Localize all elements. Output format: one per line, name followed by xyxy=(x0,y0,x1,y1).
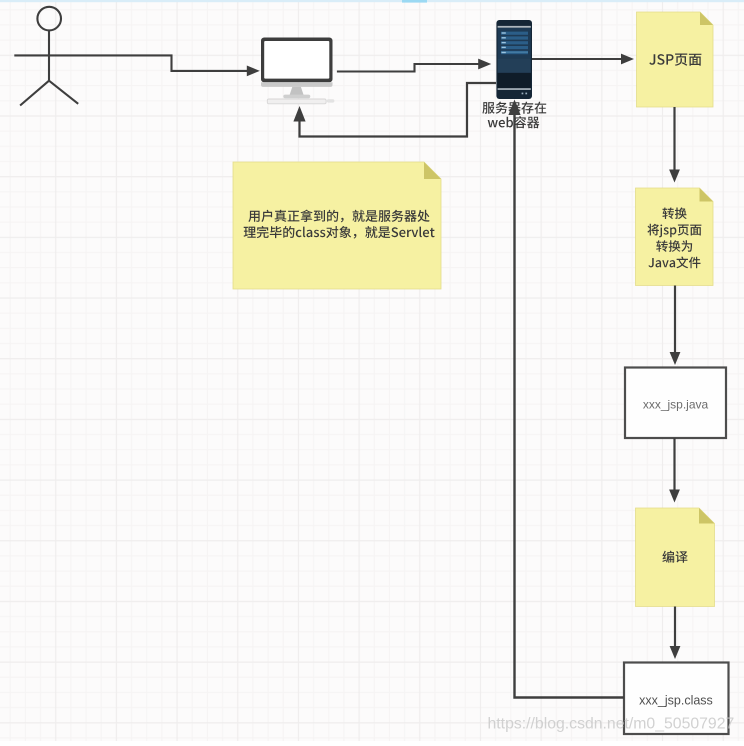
arrow JSP note to convert note xyxy=(673,107,675,171)
actor (user stick figure) xyxy=(14,7,83,106)
note: what user really gets is the processed class object, i.e. Servlet xyxy=(233,162,441,289)
label: web container (line 2) xyxy=(488,116,540,128)
box xxx_jsp.class xyxy=(624,663,729,735)
note: convert jsp page to Java file xyxy=(636,188,714,286)
server tower (web container) xyxy=(496,20,532,99)
arrow compile note to xxx_jsp.class xyxy=(674,607,676,648)
note: compile xyxy=(636,508,715,607)
wire actor to monitor (request) xyxy=(84,55,248,71)
wire xxx_jsp.class back up to server xyxy=(515,114,625,698)
arrow convert note to xxx_jsp.java xyxy=(674,286,676,354)
box xxx_jsp.java xyxy=(625,368,726,439)
monitor (user computer) xyxy=(261,38,334,104)
top video scrub bar xyxy=(0,0,744,2)
arrow xxx_jsp.java to compile note xyxy=(673,438,675,491)
note: JSP page xyxy=(637,12,714,107)
svg-text:xxx_jsp.java: xxx_jsp.java xyxy=(643,397,709,411)
wire server to JSP note xyxy=(532,58,622,60)
label: server lives in web container (line 1) xyxy=(482,102,546,114)
svg-text:xxx_jsp.class: xxx_jsp.class xyxy=(639,693,713,707)
wire server response to monitor xyxy=(300,83,497,137)
wire monitor to server xyxy=(337,64,479,72)
svg-text:https://blog.csdn.net/m0_50507: https://blog.csdn.net/m0_50507927 xyxy=(488,716,735,733)
